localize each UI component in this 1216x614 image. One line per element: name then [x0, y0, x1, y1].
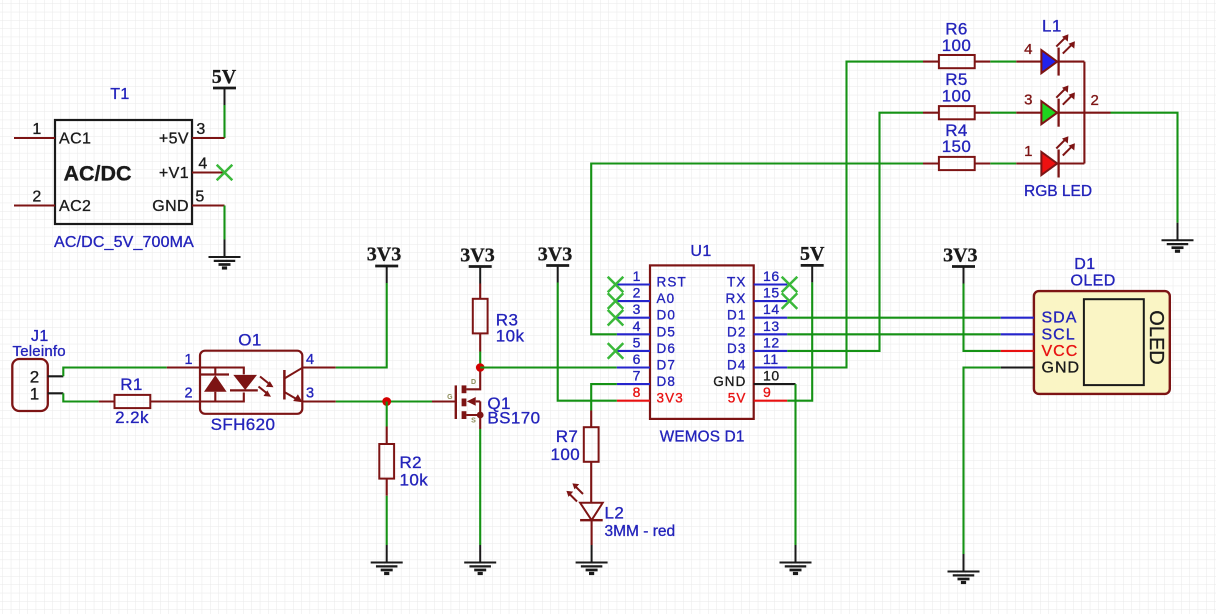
svg-text:VCC: VCC — [1042, 343, 1079, 360]
wire U1 D4 to R6 — [787, 62, 923, 368]
svg-text:3V3: 3V3 — [657, 391, 684, 406]
svg-text:S: S — [471, 418, 476, 425]
svg-text:3: 3 — [306, 386, 314, 402]
ground (R2) — [371, 545, 403, 574]
power 3V3 (O1) — [367, 244, 401, 284]
svg-text:GND: GND — [713, 374, 746, 389]
svg-text:AC2: AC2 — [59, 198, 91, 215]
resistor R7 — [584, 411, 599, 503]
svg-text:+5V: +5V — [159, 131, 189, 148]
svg-text:1: 1 — [32, 121, 41, 138]
svg-text:15: 15 — [763, 285, 780, 301]
svg-text:100: 100 — [942, 86, 972, 105]
svg-text:1: 1 — [1024, 143, 1032, 160]
RGB LED L1 red element pin 1 — [1016, 136, 1084, 177]
svg-text:SDA: SDA — [1042, 310, 1078, 327]
svg-text:4: 4 — [1024, 41, 1032, 58]
svg-text:R7: R7 — [556, 427, 579, 446]
wire R2 to ground — [386, 496, 388, 545]
no-connect X U1 pin 5 — [608, 343, 624, 359]
svg-text:10: 10 — [763, 368, 780, 384]
svg-text:GND: GND — [152, 198, 189, 215]
power 5V (U1) — [800, 243, 825, 282]
wire L1 common to ground — [1111, 113, 1178, 223]
resistor R2 — [379, 427, 394, 496]
svg-text:AC/DC: AC/DC — [63, 162, 131, 186]
svg-text:SFH620: SFH620 — [211, 415, 276, 434]
L1 common rail pin 2 — [1084, 62, 1110, 164]
power 3V3 (OLED) — [943, 245, 977, 284]
svg-text:OLED: OLED — [1071, 272, 1116, 289]
svg-text:O1: O1 — [238, 331, 261, 350]
connector J1 Teleinfo — [12, 359, 63, 411]
svg-text:TX: TX — [727, 275, 746, 290]
LED L2 — [566, 483, 602, 545]
wire R3 to drain node — [479, 352, 481, 368]
wire J1 pin1 to R1 — [63, 393, 98, 401]
svg-text:D7: D7 — [657, 358, 676, 373]
wire U1 D2 to OLED SCL — [787, 333, 1000, 335]
svg-text:16: 16 — [763, 268, 780, 284]
svg-text:D0: D0 — [657, 308, 676, 323]
svg-text:4: 4 — [306, 352, 314, 368]
svg-text:+V1: +V1 — [159, 165, 189, 182]
svg-text:RGB LED: RGB LED — [1024, 183, 1092, 200]
no-connect X U1 pin 16 — [782, 277, 798, 293]
junction node gate/R2 — [382, 397, 391, 406]
no-connect X U1 pin 3 — [608, 310, 624, 326]
svg-text:5V: 5V — [212, 66, 237, 88]
no-connect X U1 pin 2 — [608, 293, 624, 309]
wire O1 pin4 to 3V3 — [336, 283, 387, 368]
wire U1 D3 to R5 — [787, 113, 923, 351]
wire 5V to U1 pin9 — [787, 282, 812, 400]
ground (L1) — [1162, 223, 1194, 252]
svg-text:L2: L2 — [605, 504, 625, 523]
L1 pin numbers — [1024, 41, 1099, 160]
J1 pin numbers — [30, 368, 39, 404]
svg-text:5: 5 — [633, 334, 641, 350]
RGB LED L1 blue element pin 4 — [1016, 34, 1084, 75]
svg-text:4: 4 — [198, 156, 207, 173]
wire OLED GND to ground — [964, 368, 1001, 555]
U1 right pin names — [713, 275, 746, 406]
svg-text:3MM - red: 3MM - red — [605, 523, 676, 540]
svg-text:1: 1 — [30, 385, 39, 404]
svg-text:3: 3 — [633, 301, 641, 317]
wire drain node to U1 D7 — [480, 366, 617, 368]
svg-text:AC/DC_5V_700MA: AC/DC_5V_700MA — [54, 234, 194, 251]
svg-text:1: 1 — [184, 352, 192, 368]
IC U1 WEMOS D1 — [617, 265, 796, 419]
T1 pin names — [59, 131, 189, 216]
power 3V3 (R3) — [460, 245, 494, 284]
svg-text:13: 13 — [763, 318, 780, 334]
wire J1 pin2 to O1 pin1 — [63, 368, 167, 377]
svg-text:RST: RST — [657, 275, 687, 290]
svg-text:D3: D3 — [727, 341, 746, 356]
svg-text:WEMOS D1: WEMOS D1 — [660, 429, 745, 446]
svg-text:AC1: AC1 — [59, 131, 91, 148]
svg-text:150: 150 — [942, 137, 972, 156]
no-connect X U1 pin 1 — [608, 277, 624, 293]
svg-text:RX: RX — [726, 291, 747, 306]
wire T1 GND pin to ground — [223, 206, 225, 240]
U1 left pin numbers 1-8 — [633, 268, 641, 400]
svg-text:9: 9 — [763, 384, 771, 400]
wire 5V net to T1 pin 3 — [223, 105, 225, 138]
U1 right pin numbers 16-9 — [763, 268, 780, 400]
RGB LED L1 green element pin 3 — [1016, 85, 1084, 126]
svg-text:2: 2 — [1091, 92, 1099, 109]
svg-text:R2: R2 — [400, 453, 423, 472]
svg-text:BS170: BS170 — [487, 409, 540, 428]
svg-text:D1: D1 — [1074, 256, 1095, 273]
svg-text:D: D — [471, 379, 476, 386]
svg-text:8: 8 — [633, 384, 641, 400]
svg-text:7: 7 — [633, 368, 641, 384]
ground (Q1) — [464, 545, 496, 574]
svg-text:14: 14 — [763, 301, 780, 317]
svg-text:D8: D8 — [657, 374, 676, 389]
OLED pin names — [1042, 310, 1081, 377]
svg-text:3V3: 3V3 — [943, 245, 977, 267]
svg-text:R1: R1 — [120, 375, 143, 394]
display D1 OLED — [1001, 291, 1170, 394]
optocoupler O1 SFH620 — [167, 351, 336, 414]
svg-text:2.2k: 2.2k — [115, 408, 149, 427]
T1 pin numbers — [32, 121, 207, 206]
svg-text:U1: U1 — [690, 243, 711, 260]
svg-text:D4: D4 — [727, 358, 746, 373]
svg-text:D1: D1 — [727, 308, 746, 323]
svg-text:6: 6 — [633, 351, 641, 367]
svg-text:A0: A0 — [657, 291, 676, 306]
resistor R3 — [473, 284, 488, 352]
ground (U1) — [780, 545, 812, 574]
power 5V (T1) — [212, 66, 237, 105]
svg-text:5: 5 — [195, 189, 204, 206]
wire O1 pin3 to Q1 gate — [336, 400, 432, 402]
svg-text:3V3: 3V3 — [367, 244, 401, 266]
svg-text:T1: T1 — [110, 86, 129, 103]
svg-text:3V3: 3V3 — [460, 245, 494, 267]
wire Q1 source to ground — [479, 429, 481, 545]
svg-text:SCL: SCL — [1042, 326, 1076, 343]
svg-text:2: 2 — [184, 386, 192, 402]
svg-text:1: 1 — [633, 268, 641, 284]
transistor Q1 BS170 — [432, 372, 484, 430]
svg-text:10k: 10k — [400, 471, 429, 490]
svg-text:10k: 10k — [496, 326, 525, 345]
resistor R4 — [923, 157, 1016, 170]
svg-text:100: 100 — [942, 36, 972, 55]
wire U1 GND pin10 to ground — [794, 384, 796, 545]
svg-text:D6: D6 — [657, 341, 676, 356]
wire 3V3 to U1 pin8 — [558, 283, 617, 401]
svg-text:2: 2 — [32, 189, 41, 206]
ground (L2) — [576, 545, 608, 574]
svg-text:D5: D5 — [657, 324, 676, 339]
svg-text:100: 100 — [551, 445, 581, 464]
U1 left pin names — [657, 275, 687, 406]
ground (OLED) — [948, 554, 980, 583]
svg-text:5V: 5V — [800, 243, 825, 265]
svg-text:2: 2 — [633, 285, 641, 301]
wire 3V3 to OLED VCC — [964, 284, 1001, 351]
no-connect X U1 pin 15 — [782, 293, 798, 309]
svg-text:3: 3 — [196, 121, 205, 138]
O1 pin numbers — [184, 352, 314, 402]
resistor R1 — [99, 395, 200, 408]
svg-text:3: 3 — [1024, 92, 1032, 109]
transformer T1 AC/DC — [14, 120, 225, 224]
wire junction to R2 — [386, 402, 388, 427]
junction node drain/D7 — [476, 363, 485, 372]
resistor R6 — [923, 55, 1016, 68]
wire U1 D8 to R7 — [591, 384, 617, 410]
svg-text:D2: D2 — [727, 324, 746, 339]
svg-text:5V: 5V — [728, 391, 747, 406]
svg-text:4: 4 — [633, 318, 641, 334]
svg-text:L1: L1 — [1042, 16, 1062, 35]
svg-text:OLED: OLED — [1145, 310, 1167, 364]
no-connect X on T1 pin 4 — [217, 165, 233, 181]
svg-text:GND: GND — [1042, 360, 1081, 377]
wire U1 D1 to OLED SDA — [787, 317, 1000, 319]
svg-text:11: 11 — [763, 351, 779, 367]
svg-text:3V3: 3V3 — [538, 244, 572, 266]
svg-text:Teleinfo: Teleinfo — [13, 343, 66, 360]
Q1 pin letters D G S — [447, 379, 476, 425]
wire U1 D5 to R4 — [591, 164, 923, 335]
power 3V3 (U1) — [538, 244, 572, 283]
resistor R5 — [923, 106, 1016, 119]
svg-text:G: G — [447, 394, 453, 401]
svg-text:12: 12 — [763, 334, 780, 350]
ground (T1) — [209, 240, 241, 269]
